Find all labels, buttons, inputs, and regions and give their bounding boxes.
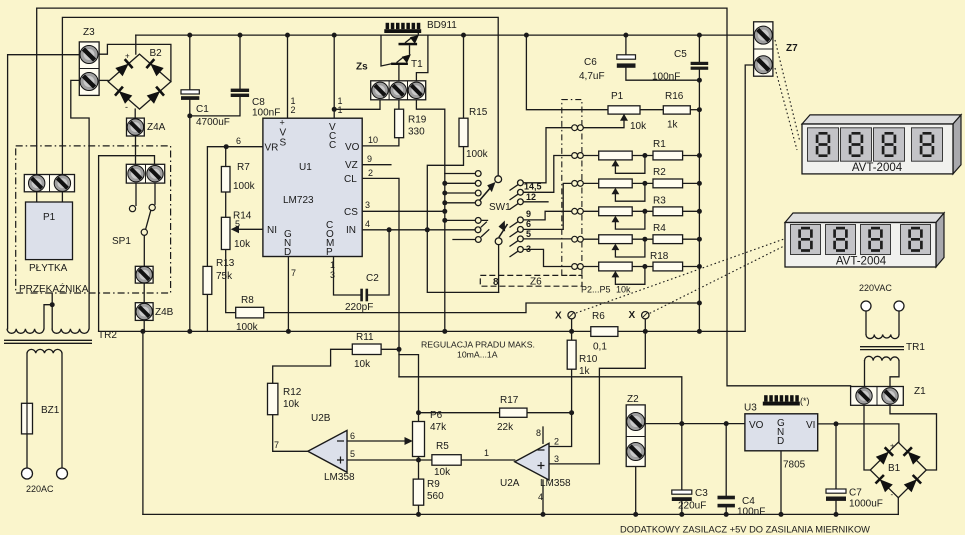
- X measuring point X2: [642, 312, 649, 319]
- svg-text:Z4B: Z4B: [155, 307, 174, 318]
- wire CS pin3 to SW1 bus: [362, 210, 445, 212]
- svg-text:2: 2: [291, 105, 296, 115]
- svg-text:100nF: 100nF: [252, 108, 280, 119]
- svg-text:IN: IN: [346, 225, 356, 236]
- svg-text:5: 5: [350, 449, 355, 459]
- ladder row 5: pot and resistor R18: [583, 262, 699, 284]
- svg-text:+: +: [125, 52, 130, 61]
- junction node at 836,423.9: [834, 421, 839, 426]
- wire X2 branch to U2A plus: [549, 331, 645, 464]
- svg-text:7: 7: [274, 440, 279, 450]
- svg-text:R5: R5: [436, 441, 449, 452]
- svg-text:-: -: [891, 490, 894, 499]
- wire C8 top: [239, 35, 241, 89]
- wire SW1 right contact 9 to row R3: [523, 211, 572, 220]
- wire C1 bottom to GND bus: [189, 100, 191, 332]
- ladder row 1: pot P2 and resistor R1: [583, 151, 699, 173]
- svg-text:4: 4: [365, 219, 370, 229]
- junction node at 571.6,412.7: [569, 410, 574, 415]
- junction node at 526.4,35.1: [524, 33, 529, 38]
- svg-text:0,1: 0,1: [593, 342, 607, 353]
- wire U1 pin11: [333, 35, 335, 118]
- svg-text:R4: R4: [653, 223, 666, 234]
- svg-text:10k: 10k: [434, 467, 451, 478]
- wire R16 right to ladder bus: [690, 109, 699, 111]
- switch SW1 left contacts: [475, 171, 481, 243]
- svg-text:VI: VI: [806, 420, 815, 431]
- junction node at 427.3,229.8: [425, 227, 430, 232]
- svg-text:C7: C7: [849, 488, 862, 499]
- svg-text:4700uF: 4700uF: [196, 117, 230, 128]
- wire C2 right to IN line: [368, 230, 389, 295]
- IC U3 7805: [745, 414, 818, 451]
- capacitor C6: [617, 55, 636, 68]
- svg-text:U1: U1: [299, 162, 312, 173]
- svg-text:10k: 10k: [630, 121, 647, 132]
- svg-text:C4: C4: [742, 496, 755, 507]
- svg-text:22k: 22k: [497, 422, 514, 433]
- wire R17 left to P6 riser: [419, 412, 500, 414]
- junction node at 726.2,423.6: [724, 421, 729, 426]
- svg-text:P6: P6: [430, 410, 443, 421]
- svg-text:R2: R2: [653, 167, 666, 178]
- svg-text:U3: U3: [744, 403, 757, 414]
- resistor R19: [395, 109, 404, 138]
- wire U2A pin8 stub: [542, 427, 544, 443]
- capacitor C2: [360, 289, 368, 302]
- svg-text:10: 10: [368, 135, 378, 145]
- relay board P1: [26, 202, 73, 260]
- wire P1 to R16: [640, 109, 663, 111]
- wire ladder right bus: [698, 80, 700, 331]
- wire R10 top: [571, 331, 573, 340]
- wire R7 to R14: [225, 192, 227, 217]
- switch SW1 pole 1: [480, 176, 502, 201]
- op-amp U2A: [515, 443, 549, 480]
- resistor R6: [591, 327, 618, 337]
- svg-text:TR2: TR2: [98, 330, 117, 341]
- bridge B2: [108, 54, 171, 109]
- svg-text:TR1: TR1: [906, 342, 925, 353]
- wire Z1 right screw to B1 right: [890, 405, 937, 470]
- svg-text:LM358: LM358: [540, 478, 571, 489]
- svg-text:-: -: [125, 102, 128, 112]
- svg-text:100k: 100k: [233, 181, 256, 192]
- svg-text:220VAC: 220VAC: [859, 283, 892, 293]
- svg-text:CL: CL: [344, 174, 357, 185]
- junction node at 463.5,35.1: [461, 33, 466, 38]
- svg-text:3: 3: [554, 454, 559, 464]
- svg-text:Z4A: Z4A: [147, 122, 166, 133]
- junction node at 781,514.4: [779, 512, 784, 517]
- junction node at 444.8,211.3: [442, 209, 447, 214]
- wire VR pin6 to R7 and R13: [207, 147, 263, 267]
- switch SP1 contacts: [129, 204, 155, 235]
- svg-text:14,5: 14,5: [524, 182, 542, 192]
- svg-text:Zs: Zs: [356, 62, 368, 73]
- wire Zs middle screw to R19: [398, 100, 400, 109]
- junction node at 52.2,304.7: [50, 302, 55, 307]
- junction node at 699.4,331.4: [697, 329, 702, 334]
- resistor R12: [268, 383, 278, 414]
- resistor R9: [413, 479, 424, 505]
- potentiometer P1: [608, 106, 640, 121]
- junction node at 240,35.1: [238, 33, 243, 38]
- wire C6 bottom rail: [626, 68, 700, 80]
- wire SW1 left contacts to bus: [445, 174, 476, 221]
- svg-text:C5: C5: [674, 49, 687, 60]
- svg-text:B2: B2: [150, 48, 163, 59]
- wire R8 right to ladder foot: [264, 303, 700, 313]
- wire P1 wiper to connector row: [583, 114, 624, 128]
- terminal block SP1 top: [126, 164, 164, 183]
- wire U2B minus to P6 wiper: [347, 440, 405, 442]
- svg-text:VR: VR: [265, 143, 279, 154]
- svg-text:P1: P1: [611, 91, 624, 102]
- svg-text:C8: C8: [252, 97, 265, 108]
- svg-text:7: 7: [291, 268, 296, 278]
- wire P6 top to R11 node: [399, 355, 419, 422]
- svg-text:AVT-2004: AVT-2004: [852, 162, 903, 174]
- wire Z4A to SP1: [135, 136, 137, 164]
- junction node at 142.9,331.4: [140, 329, 145, 334]
- terminal block Z1: [851, 387, 904, 406]
- svg-text:CS: CS: [344, 207, 358, 218]
- wire R11 left to R12: [273, 349, 353, 383]
- wire SW1 right contact 3 to row R18: [523, 249, 572, 266]
- svg-text:47k: 47k: [430, 422, 447, 433]
- junction node at 189.8,331.4: [187, 329, 192, 334]
- svg-text:Z6: Z6: [530, 277, 542, 288]
- resistor R17: [500, 408, 527, 417]
- junction node at 644.9,239.2: [642, 237, 647, 242]
- wire R13 bottom to GND bus: [206, 294, 208, 331]
- terminal Z4B: [135, 303, 153, 321]
- junction node at 726.2,514.4: [724, 512, 729, 517]
- wire U3 VI to B1 plus: [818, 424, 899, 442]
- wire Z2 top screw to U3 VO: [645, 423, 745, 425]
- wire R14 bottom to R8: [226, 250, 236, 313]
- svg-text:VO: VO: [345, 142, 360, 153]
- svg-text:C3: C3: [695, 488, 708, 499]
- junction node at 226.2,146.7: [224, 144, 229, 149]
- wire TR1 secondary to Z1: [865, 361, 900, 387]
- svg-text:P2...P5: P2...P5: [581, 285, 611, 295]
- svg-text:1: 1: [330, 260, 335, 270]
- svg-text:4,7uF: 4,7uF: [579, 71, 605, 82]
- ladder row 4: pot P5 and resistor R4: [583, 235, 699, 257]
- wire SP1 switch chain: [136, 183, 155, 266]
- terminal block Z7: [754, 22, 773, 76]
- svg-text:R18: R18: [650, 251, 669, 262]
- svg-text:NI: NI: [267, 225, 277, 236]
- capacitor C5: [691, 62, 709, 70]
- svg-text:R11: R11: [356, 332, 374, 343]
- wire C4 leads: [725, 424, 727, 515]
- heatsink U3: [763, 395, 800, 405]
- wire C3 leads: [681, 424, 683, 515]
- wire R5 to U2A output: [461, 459, 515, 461]
- resistor R10: [567, 340, 576, 369]
- svg-text:5: 5: [526, 229, 531, 239]
- wire relay to SW1 pole: [62, 17, 498, 176]
- svg-text:D: D: [777, 436, 784, 447]
- junction node at 644.9,155.5: [642, 153, 647, 158]
- wire TR2 primary left to Z3 top: [8, 55, 80, 329]
- wire U1 pin13 to C2: [334, 257, 361, 296]
- switch SW1 lower-left blades: [481, 222, 490, 237]
- svg-text:1000uF: 1000uF: [849, 499, 883, 510]
- 220VAC input circles: [861, 301, 871, 311]
- junction node at 418.5,460: [416, 458, 421, 463]
- junction node at 699.4,35.1: [697, 33, 702, 38]
- svg-text:9: 9: [526, 209, 531, 219]
- heatsink BD911: [384, 23, 421, 33]
- connector tall dash-dot box: [562, 100, 582, 276]
- svg-text:8: 8: [493, 277, 499, 288]
- connector pin pairs: [572, 125, 584, 270]
- svg-text:2: 2: [554, 437, 559, 447]
- wire mains loop top border: [37, 8, 851, 386]
- wire SW1 right contact 12 to row R1: [523, 156, 572, 193]
- wire R12 bottom to U2B output: [273, 415, 308, 452]
- svg-text:BD911: BD911: [427, 20, 457, 31]
- svg-text:R10: R10: [579, 354, 598, 365]
- svg-text:VO: VO: [749, 420, 764, 431]
- svg-text:6: 6: [236, 136, 241, 146]
- wire GND-left riser to SP1 right screw: [99, 156, 155, 332]
- display module AVT-2004 upper: [802, 115, 961, 174]
- svg-text:10k: 10k: [283, 399, 300, 410]
- terminal block Z2: [626, 405, 645, 467]
- display module AVT-2004 lower: [785, 213, 944, 268]
- svg-text:2: 2: [368, 168, 373, 178]
- switch SW1 right blades: [510, 185, 518, 257]
- svg-text:B1: B1: [888, 463, 901, 474]
- junction node at 644.9,211.3: [642, 209, 647, 214]
- wire VZ pin9 stub: [362, 164, 391, 166]
- junction dots group: [50, 33, 839, 517]
- junction node at 444.8,183.3: [442, 181, 447, 186]
- wire P6 bottom: [418, 457, 420, 461]
- wire bottom GND rail: [143, 513, 898, 515]
- junction node at 699.4,109.7: [697, 107, 702, 112]
- svg-text:12: 12: [526, 192, 536, 202]
- svg-text:7805: 7805: [783, 460, 806, 471]
- svg-text:D: D: [284, 247, 291, 258]
- svg-text:C6: C6: [584, 57, 597, 68]
- wire C7 leads: [835, 424, 837, 515]
- ladder row 2: pot P3 and resistor R2: [583, 179, 699, 201]
- wire SW1 contact stubs lower left: [453, 220, 488, 239]
- capacitor C3: [672, 490, 692, 501]
- svg-text:1: 1: [484, 448, 489, 458]
- wire GND bus down to bottom rail: [142, 331, 144, 514]
- svg-text:1k: 1k: [579, 366, 591, 377]
- svg-text:SW1: SW1: [489, 202, 511, 213]
- svg-text:R3: R3: [653, 196, 666, 207]
- wire IN riser to Z6 pin8 link: [427, 230, 498, 293]
- wire Z3 bottom screw left to TR2 primary right: [71, 80, 89, 328]
- op-amp U2B: [308, 430, 347, 472]
- capacitor C8: [231, 89, 249, 97]
- wire Zs right screw to SW1 bus: [416, 100, 444, 332]
- junction node at 699.4,239.2: [697, 237, 702, 242]
- junction node at 571.6,331.4: [569, 329, 574, 334]
- wire TR2 secondary to BZ1 and 220AC: [27, 353, 62, 468]
- terminal SP1 bottom: [135, 266, 153, 283]
- wire SW1 right contact 5 to row R4: [523, 238, 572, 240]
- svg-text:REGULACJA PRADU MAKS.: REGULACJA PRADU MAKS.: [421, 340, 535, 350]
- junction node at 288.4,331.4: [286, 329, 291, 334]
- resistor R5: [432, 455, 461, 466]
- svg-text:AVT-2004: AVT-2004: [836, 256, 887, 268]
- svg-text:R15: R15: [469, 107, 488, 118]
- wire R11 right: [381, 348, 399, 350]
- wire Z2 bottom screw to GND rail: [635, 467, 637, 515]
- junction node at 699.4,266.5: [697, 264, 702, 269]
- wire V+ feed to P1 pot: [526, 35, 608, 110]
- svg-text:R8: R8: [241, 295, 254, 306]
- svg-text:100k: 100k: [466, 149, 489, 160]
- junction node at 644.9,266.5: [642, 264, 647, 269]
- wire C5 leads: [698, 35, 700, 80]
- resistor R11: [352, 344, 381, 355]
- svg-text:3: 3: [330, 270, 335, 280]
- svg-text:10k: 10k: [616, 285, 631, 295]
- svg-text:+: +: [280, 118, 285, 128]
- wire Z3 bottom screw to B2 left vertex: [99, 79, 108, 81]
- junction node at 444.8,331.4: [442, 329, 447, 334]
- svg-text:R16: R16: [665, 91, 684, 102]
- terminal block Z3: [79, 42, 99, 96]
- 220AC output circles: [22, 468, 33, 479]
- resistor R8: [236, 307, 264, 318]
- svg-text:100nF: 100nF: [652, 72, 680, 83]
- svg-text:75k: 75k: [216, 271, 233, 282]
- wire X1 stem: [571, 319, 573, 332]
- dotted leader Z7 to display 1 lower: [775, 68, 797, 150]
- svg-text:8: 8: [536, 428, 541, 438]
- svg-text:LM723: LM723: [283, 195, 314, 206]
- IC U1 pin numbers: [236, 96, 378, 280]
- svg-text:4: 4: [538, 492, 543, 502]
- resistor R7: [221, 167, 230, 193]
- svg-text:10k: 10k: [354, 359, 371, 370]
- svg-text:P1: P1: [43, 212, 56, 223]
- wire Z1 left screw to B1 left: [864, 405, 870, 470]
- wire U2A pin4 to GND rail: [542, 480, 544, 514]
- wire SW1 right contact 6 to row R2: [523, 183, 572, 229]
- svg-text:3: 3: [365, 200, 370, 210]
- svg-text:T1: T1: [411, 59, 423, 70]
- svg-text:9: 9: [367, 154, 372, 164]
- transformer TR1: [860, 335, 904, 361]
- svg-text:Z2: Z2: [627, 394, 639, 405]
- wire R19 bottom to VO pin10: [362, 138, 399, 146]
- junction node at 836,514.4: [834, 512, 839, 517]
- wire R11 P6 CL common line: [399, 377, 682, 424]
- svg-text:X: X: [555, 311, 562, 322]
- svg-text:220AC: 220AC: [26, 484, 54, 494]
- wire R7 top: [225, 147, 227, 167]
- junction node at 189.8,115.9: [187, 113, 192, 118]
- svg-text:560: 560: [427, 491, 444, 502]
- svg-text:6: 6: [526, 219, 531, 229]
- junction node at 389.1,229.8: [387, 227, 392, 232]
- svg-text:3: 3: [526, 244, 531, 254]
- X measuring point X1: [568, 312, 575, 319]
- resistor R15: [459, 118, 468, 146]
- IC U3 pin texts: [749, 418, 815, 447]
- wire C6 top: [625, 35, 627, 55]
- svg-text:330: 330: [408, 127, 425, 138]
- wire U1 pin7 GND: [287, 257, 289, 332]
- svg-text:R1: R1: [653, 139, 666, 150]
- svg-text:R9: R9: [427, 479, 440, 490]
- wire U1 pin12: [287, 35, 289, 118]
- svg-text:U2B: U2B: [311, 413, 331, 424]
- wire Z4B chain: [143, 283, 145, 331]
- wire Zs left screw to VCC line: [334, 100, 380, 110]
- dotted leader X2 to display 2: [650, 246, 784, 313]
- fuse BZ1: [22, 403, 33, 434]
- junction node at 189.8,35.1: [187, 33, 192, 38]
- junction node at 418.5,514.4: [416, 512, 421, 517]
- terminal block Zs: [371, 81, 426, 100]
- resistor R13: [203, 266, 212, 294]
- resistor R16: [663, 106, 690, 114]
- svg-text:220uF: 220uF: [678, 501, 706, 512]
- wire main V+ bus: [136, 34, 754, 36]
- svg-text:R6: R6: [592, 311, 605, 322]
- svg-text:220pF: 220pF: [345, 302, 373, 313]
- svg-text:C: C: [329, 140, 336, 151]
- svg-text:Z3: Z3: [83, 27, 95, 38]
- wire R15 top: [463, 35, 465, 118]
- junction node at 681.8,514.4: [679, 512, 684, 517]
- wire SW1 right contact unlabeled to tall box: [523, 201, 548, 203]
- ladder row 3: pot P4 and resistor R3: [583, 207, 699, 229]
- svg-text:U2A: U2A: [500, 478, 520, 489]
- junction node at 334.2,35.1: [332, 33, 337, 38]
- capacitor C4: [718, 496, 735, 508]
- wire IN pin4: [362, 229, 475, 231]
- junction node at 635.7,514.4: [633, 512, 638, 517]
- switch SW1 right contacts: [518, 180, 524, 252]
- svg-text:100k: 100k: [236, 322, 259, 333]
- svg-text:1: 1: [338, 105, 343, 115]
- wire X2 stem: [644, 319, 646, 332]
- svg-text:Z7: Z7: [786, 43, 798, 54]
- junction node at 444.8,193: [442, 191, 447, 196]
- svg-text:R17: R17: [500, 395, 519, 406]
- wire NI pin5 to R14 wiper: [239, 228, 263, 230]
- wire U3 GND pin: [780, 451, 782, 515]
- junction node at 699.4,80.2: [697, 78, 702, 83]
- terminal block relay input: [24, 175, 74, 203]
- svg-text:R13: R13: [216, 258, 235, 269]
- dotted leader Z7 to display 1 upper: [775, 40, 800, 142]
- wire U2B plus to R5 node: [347, 459, 432, 461]
- svg-text:P: P: [326, 247, 333, 258]
- svg-text:R19: R19: [408, 115, 427, 126]
- capacitor C1: [181, 90, 199, 100]
- wire SW1 pole2 to Z6 pin8: [498, 245, 500, 293]
- wire C8 bottom to C1 line: [190, 97, 240, 116]
- junction node at 699.4,303: [697, 301, 702, 306]
- junction node at 334.2,109.3: [332, 107, 337, 112]
